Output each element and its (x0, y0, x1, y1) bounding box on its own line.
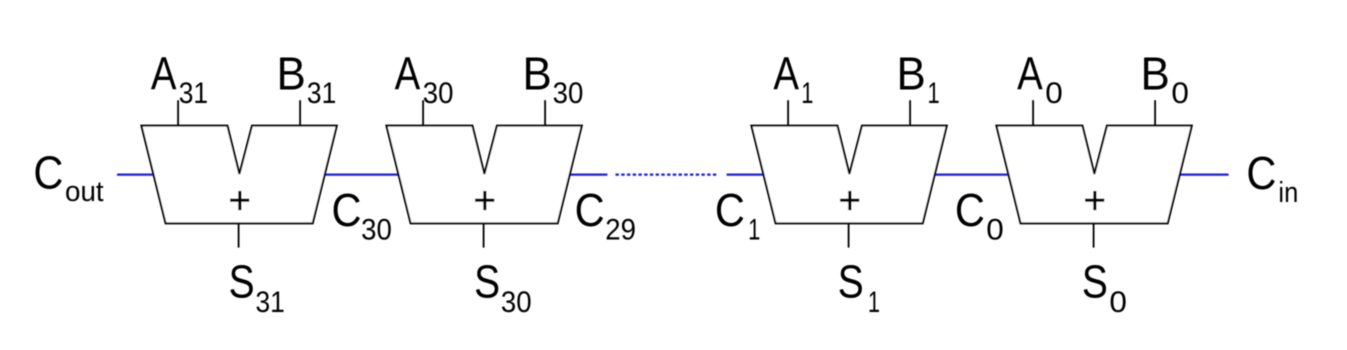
svg-text:C: C (1246, 148, 1276, 199)
pin A30 input (422, 100, 424, 125)
plus symbol inside FA30 (475, 199, 494, 202)
pin B0 input (1154, 100, 1156, 125)
svg-text:C: C (955, 185, 985, 236)
svg-text:31: 31 (179, 76, 208, 110)
svg-text:C: C (332, 185, 362, 236)
svg-text:B: B (522, 48, 551, 100)
svg-text:0: 0 (986, 212, 1004, 246)
wire C30 (carry from FA30 to FA31) (325, 174, 399, 176)
svg-text:S: S (1082, 256, 1108, 308)
svg-text:1: 1 (927, 76, 939, 110)
svg-text:29: 29 (605, 214, 636, 247)
wire C0 (carry from FA0 to FA1) (935, 174, 1009, 176)
pin S31 output (238, 223, 240, 247)
svg-text:C: C (33, 148, 63, 199)
plus symbol inside FA31 (230, 199, 249, 202)
svg-text:30: 30 (423, 77, 454, 110)
full adder FA0 (1-bit adder block) (996, 126, 1191, 224)
pin S0 output (1093, 223, 1095, 247)
svg-text:31: 31 (307, 76, 336, 110)
pin B30 input (544, 100, 546, 125)
svg-text:in: in (1278, 176, 1298, 209)
pin S1 output (848, 223, 850, 247)
svg-text:0: 0 (1045, 76, 1063, 110)
wire Cin (carry input to FA0) (1180, 174, 1228, 176)
svg-text:30: 30 (361, 214, 392, 247)
svg-text:30: 30 (553, 77, 584, 110)
wire C1 (carry into FA1, right solid part) (727, 174, 764, 176)
svg-text:30: 30 (501, 286, 532, 319)
pin S30 output (483, 223, 485, 247)
wire C29 (carry out of FA29, left solid part) (570, 174, 607, 176)
svg-text:B: B (1140, 48, 1169, 100)
plus symbol inside FA0 (1085, 199, 1104, 202)
wire Cout (carry out of FA31) (117, 174, 154, 176)
svg-text:C: C (575, 185, 605, 236)
svg-text:1: 1 (748, 212, 760, 246)
pin A31 input (177, 100, 179, 125)
wire ellipsis (dashed carry-chain continuation) (616, 174, 719, 176)
svg-text:S: S (474, 256, 500, 308)
full adder FA31 (1-bit adder block) (141, 126, 336, 224)
pin B31 input (299, 100, 301, 125)
svg-text:S: S (838, 256, 864, 308)
svg-text:B: B (896, 48, 925, 100)
svg-text:31: 31 (255, 285, 284, 319)
pin B1 input (909, 100, 911, 125)
full adder FA30 (1-bit adder block) (386, 126, 581, 224)
svg-text:S: S (229, 256, 255, 308)
svg-text:out: out (65, 176, 104, 209)
svg-text:0: 0 (1171, 76, 1189, 110)
svg-text:A: A (395, 48, 421, 99)
svg-text:A: A (151, 48, 177, 99)
svg-text:B: B (276, 48, 305, 100)
pin A0 input (1032, 100, 1034, 125)
svg-text:1: 1 (801, 76, 813, 110)
plus symbol inside FA1 (840, 199, 859, 202)
pin A1 input (787, 100, 789, 125)
full adder FA1 (1-bit adder block) (751, 126, 946, 224)
svg-text:A: A (773, 48, 799, 99)
svg-text:C: C (715, 185, 745, 236)
svg-text:1: 1 (868, 285, 880, 319)
svg-text:A: A (1017, 48, 1043, 99)
svg-text:0: 0 (1109, 285, 1127, 319)
